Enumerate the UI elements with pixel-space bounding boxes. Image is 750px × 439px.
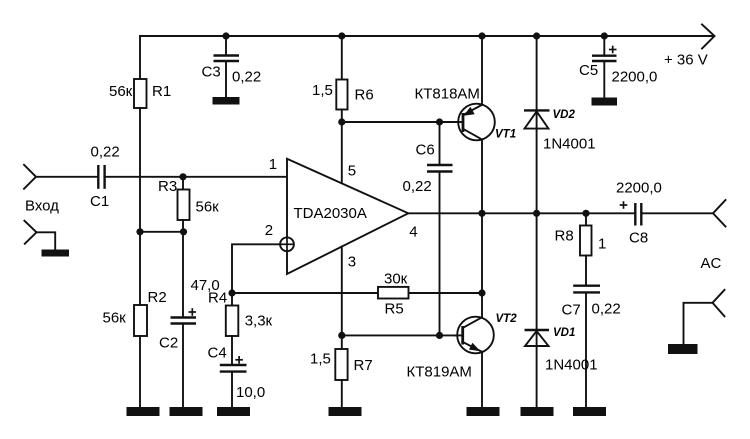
ground bar under C2 [170, 407, 203, 416]
ground bar under VT2 [467, 407, 500, 416]
wire: R6 to pin5/VT1 node [341, 110, 343, 123]
label R2 [148, 289, 167, 306]
diode VD1 cathode bar [525, 329, 550, 331]
label 1,5 R7 [310, 351, 331, 368]
svg-text:2200,0: 2200,0 [616, 180, 662, 197]
svg-text:2: 2 [265, 222, 273, 239]
svg-text:R6: R6 [355, 87, 374, 104]
transistor VT2 emitter arrow (NPN) [469, 343, 481, 351]
svg-text:AC: AC [701, 255, 722, 272]
wire: R1 to bias node (crosses input line) [139, 108, 141, 232]
label pin 1 [269, 156, 277, 173]
label 0,22 C3 [232, 68, 261, 85]
svg-text:56к: 56к [103, 310, 127, 327]
transistor VT2 base bar [461, 326, 464, 345]
svg-text:56к: 56к [109, 83, 133, 100]
polarity plus C2 [189, 308, 197, 316]
transistor VT2 collector diagonal [463, 317, 482, 328]
resistor R3 [178, 190, 190, 221]
wire: pin3 node to R7 [341, 335, 343, 349]
svg-text:+ 36 V: + 36 V [664, 52, 708, 69]
svg-text:4: 4 [409, 224, 417, 241]
svg-text:VD2: VD2 [553, 109, 576, 121]
wire: VT2 emitter to ground [481, 352, 483, 408]
capacitor C2 plates [171, 318, 197, 324]
wire: VT1 base from node [342, 121, 463, 123]
label pin 4 [409, 224, 417, 241]
wire: C7 to ground [585, 293, 587, 408]
transistor VT2 emitter diagonal [463, 342, 482, 352]
label 0,22 C6 [403, 178, 432, 195]
node dot R4/pin2/feedback [228, 289, 235, 296]
svg-text:3,3к: 3,3к [245, 313, 273, 330]
svg-text:3: 3 [348, 254, 356, 271]
capacitor C4 plates [220, 365, 247, 372]
svg-text:0,22: 0,22 [91, 144, 120, 161]
svg-text:1N4001: 1N4001 [545, 357, 598, 374]
resistor R7 [335, 349, 347, 380]
label pin 2 [265, 222, 273, 239]
svg-text:КТ818АМ: КТ818АМ [415, 86, 480, 103]
svg-text:5: 5 [348, 163, 356, 180]
wire: R3 to bias wire [182, 220, 184, 232]
label 1N4001 VD2 [543, 136, 596, 153]
label pin 5 [348, 163, 356, 180]
wire: C3 to ground [225, 62, 227, 97]
resistor R1 [134, 79, 147, 108]
node dot C6 bottom on VT2 base [436, 332, 443, 339]
terminal arrow +36V [702, 25, 715, 49]
label КТ818АМ [415, 86, 480, 103]
label AC [701, 255, 722, 272]
ground bar under C3 [213, 97, 240, 105]
label 47,0 C2 value [191, 277, 220, 294]
wire: VT1 collector to output [481, 140, 483, 214]
ground bar AC return [668, 344, 698, 354]
wire: VT1 emitter to rail [481, 36, 483, 105]
svg-text:1N4001: 1N4001 [543, 136, 596, 153]
diode VD2 triangle [525, 111, 549, 128]
transistor VT1 base bar [462, 113, 465, 132]
wire: R4 to C4 [231, 336, 233, 364]
svg-text:R2: R2 [148, 289, 167, 306]
label R6 [355, 87, 374, 104]
label 30к R5 [384, 270, 408, 287]
svg-text:Вход: Вход [25, 198, 59, 215]
svg-text:R7: R7 [354, 357, 373, 374]
resistor R8 [580, 226, 592, 256]
capacitor C8 plates [635, 203, 641, 226]
label VD1 [553, 327, 575, 339]
ground bar under C7 [573, 407, 606, 416]
label КТ819АМ [407, 364, 472, 381]
label 1,5 R6 [312, 82, 333, 99]
label 2200,0 C5 [612, 69, 658, 86]
label R3 [158, 178, 177, 195]
cross in pin 2 circle [280, 237, 294, 251]
label C3 [202, 64, 221, 81]
label pin 3 [348, 254, 356, 271]
label 1 R8 [598, 236, 606, 253]
wire: VT2 base bar connection [455, 334, 463, 336]
wire: R5 to VT2 collector column [409, 292, 483, 294]
wire: R8 to C7 [585, 256, 587, 285]
wire: input ground terminal to ground [36, 232, 55, 249]
label R1 [152, 83, 171, 100]
terminal arrow AC return [713, 290, 725, 317]
wire: VT2 collector to output [481, 213, 483, 317]
svg-text:VD1: VD1 [553, 327, 575, 339]
node dot R3/C2 [180, 228, 187, 235]
svg-text:C1: C1 [90, 193, 109, 210]
svg-text:56к: 56к [196, 198, 220, 215]
svg-text:1,5: 1,5 [312, 82, 333, 99]
wire: output to VD1 [536, 213, 538, 408]
wire: output to R8 [585, 213, 587, 225]
svg-text:C6: C6 [416, 142, 435, 159]
svg-text:R5: R5 [385, 301, 404, 318]
polarity plus C4 [235, 356, 243, 364]
wire: rail to C3 [225, 36, 227, 55]
diode VD2 cathode bar [524, 109, 550, 111]
svg-text:0,22: 0,22 [592, 301, 621, 318]
label C2 [159, 335, 178, 352]
node dot VT1 emitter on rail [478, 32, 485, 39]
label 56к R3 [196, 198, 220, 215]
node dot R6 on rail [338, 32, 345, 39]
label C6 [416, 142, 435, 159]
node dot C5 on rail [601, 32, 608, 39]
node dot feedback on VT2 collector [478, 289, 485, 296]
capacitor C3 plates [214, 56, 240, 62]
wire: C1 to pin 1 (crosses R1/R2 column) [106, 176, 287, 178]
capacitor C1 plates [98, 165, 104, 189]
wire: pin 2 from R4 node [232, 244, 281, 293]
node dot R3 top [179, 173, 186, 180]
node dot R1/R2 bias [136, 228, 143, 235]
ground bar under VD1 [521, 407, 554, 416]
label C1 [90, 193, 109, 210]
wire: R7 to ground [341, 380, 343, 408]
svg-text:C3: C3 [202, 64, 221, 81]
label 1N4001 VD1 [545, 357, 598, 374]
wire: output from pin 4 to C8 [408, 212, 634, 214]
label R8 [555, 228, 574, 245]
svg-text:VT1: VT1 [495, 129, 516, 141]
wire: C8 to output terminal [643, 212, 714, 214]
label C4 [208, 345, 227, 362]
svg-text:R4: R4 [208, 289, 227, 306]
svg-text:1,5: 1,5 [310, 351, 331, 368]
label Вход [25, 198, 59, 215]
ground bar under C5 [592, 98, 618, 106]
wire: +36V top supply rail [140, 35, 712, 37]
wire: R2 to ground [139, 336, 141, 408]
node dot C6 top [436, 118, 443, 125]
svg-text:TDA2030A: TDA2030A [294, 205, 367, 222]
node dot VT1 collector on output [478, 210, 485, 217]
label R5 [385, 301, 404, 318]
label VD2 [553, 109, 576, 121]
label C8 [629, 230, 648, 247]
transistor VT1 emitter diagonal [463, 105, 482, 115]
ground bar under C4 [217, 407, 250, 416]
wire: feedback node to R5 [232, 292, 378, 294]
label C7 [562, 301, 581, 318]
node dot C3 on rail [222, 32, 229, 39]
resistor R6 [336, 80, 347, 110]
transistor VT1 emitter arrow (PNP) [464, 107, 475, 116]
label 3,3к R4 [245, 313, 273, 330]
ground bar under R7 [329, 407, 362, 416]
wire: C5 to ground [603, 62, 605, 98]
svg-text:2200,0: 2200,0 [612, 69, 658, 86]
wire: node to R3 [182, 177, 184, 190]
label 56к R2 [103, 310, 127, 327]
node dot pin3/R7/VT2 base [338, 332, 345, 339]
wire: C6 column down to VT2 base (crosses output) [439, 173, 441, 336]
resistor R5 [378, 287, 409, 299]
svg-text:0,22: 0,22 [403, 178, 432, 195]
op-amp U1 TDA2030A triangle [287, 159, 408, 274]
wire: AC return to ground [684, 303, 713, 344]
ground bar under R2 [127, 407, 160, 416]
resistor R4 [226, 306, 239, 337]
svg-text:VT2: VT2 [496, 313, 518, 325]
svg-text:КТ819АМ: КТ819АМ [407, 364, 472, 381]
wire: bias node to C2/R3 node [140, 231, 184, 233]
label 2200,0 C8 [616, 180, 662, 197]
wire: C4 to ground [231, 373, 233, 408]
wire: R4 node down to R4 [231, 293, 233, 306]
wire: rail to R6 [341, 36, 343, 80]
wire: VT1 base bar connection [455, 121, 463, 123]
terminal arrow output [713, 200, 726, 227]
svg-text:C4: C4 [208, 345, 227, 362]
label R7 [354, 357, 373, 374]
svg-text:R8: R8 [555, 228, 574, 245]
capacitor C6 plates [427, 165, 453, 172]
node dot VD2 on output [533, 210, 540, 217]
node dot R6/pin5/VT1 base [338, 118, 345, 125]
resistor R2 [134, 305, 147, 336]
label R4 [208, 289, 227, 306]
label 56к R1 [109, 83, 133, 100]
wire: VT2 base from pin3 node [342, 334, 463, 336]
wire: rail to C5 [603, 36, 605, 55]
polarity plus C8 [620, 201, 628, 209]
svg-text:C2: C2 [159, 335, 178, 352]
wire: node to C2 [182, 232, 184, 318]
label TDA2030A [294, 205, 367, 222]
svg-text:C7: C7 [562, 301, 581, 318]
diode VD1 triangle [525, 331, 549, 346]
svg-text:10,0: 10,0 [236, 384, 265, 401]
wire: bias node to R2 [139, 232, 141, 305]
wire: input to C1 [36, 176, 97, 178]
label VT2 [496, 313, 518, 325]
wire: pin 3 down [341, 247, 343, 336]
label +36 V [664, 52, 708, 69]
transistor VT1 collector diagonal [463, 129, 482, 140]
ground bar input [42, 250, 70, 257]
node dot VD2 on rail [533, 32, 540, 39]
node dot R8 on output [582, 210, 589, 217]
polarity plus C5 [609, 46, 617, 54]
terminal arrow input ground [24, 221, 36, 244]
inverting input circle pin 2 [280, 237, 294, 251]
svg-text:30к: 30к [384, 270, 408, 287]
svg-text:1: 1 [598, 236, 606, 253]
svg-text:1: 1 [269, 156, 277, 173]
wire: C6 column top [439, 122, 441, 164]
transistor Q2 VT2 circle [457, 317, 494, 354]
label VT1 [495, 129, 516, 141]
svg-text:C8: C8 [629, 230, 648, 247]
wire: C2 to ground [182, 325, 184, 409]
label 10,0 C4 [236, 384, 265, 401]
svg-text:R3: R3 [158, 178, 177, 195]
svg-text:C5: C5 [579, 62, 598, 79]
wire: rail to R1 [139, 36, 141, 79]
svg-text:0,22: 0,22 [232, 68, 261, 85]
label 0,22 C1 [91, 144, 120, 161]
wire: rail to VD2 [536, 36, 538, 213]
wire: pin 5 [341, 122, 343, 184]
label 0,22 C7 [592, 301, 621, 318]
svg-text:R1: R1 [152, 83, 171, 100]
terminal arrow input signal [24, 165, 36, 189]
label C5 [579, 62, 598, 79]
transistor Q1 VT1 circle [458, 104, 495, 141]
capacitor C5 plates [592, 56, 617, 61]
capacitor C7 plates [573, 286, 600, 293]
